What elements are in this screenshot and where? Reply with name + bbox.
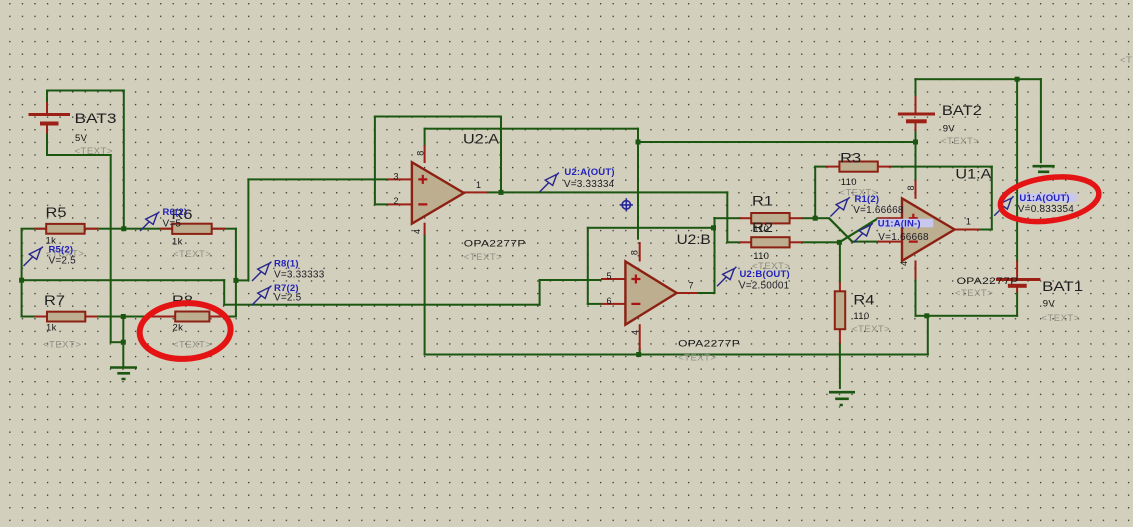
wire U1:A feedback drop vertical: [991, 166, 993, 231]
svg-text:U2:B(OUT): U2:B(OUT): [740, 269, 790, 280]
junction dot R2/R4 node: [837, 240, 842, 245]
svg-text:3: 3: [394, 172, 399, 182]
svg-text:R5(2): R5(2): [49, 245, 74, 256]
wire V+ branch rail y142 horizontal: [637, 141, 917, 143]
svg-text:<TEXT>: <TEXT>: [852, 324, 890, 335]
svg-text:BAT1: BAT1: [1042, 279, 1083, 294]
probe arrow R7(2): [252, 286, 271, 305]
wire BAT3 bottom horizontal: [46, 154, 112, 156]
wire U2:A feedback right vertical: [500, 116, 502, 194]
resistor R5 leads: [35, 228, 48, 230]
wire R3 right feedback horizontal: [890, 166, 993, 168]
svg-text:V=2.5: V=2.5: [274, 293, 302, 304]
junction dot top rail BAT1: [1015, 77, 1020, 82]
wire BAT3 jog to ground net: [110, 341, 125, 343]
svg-text:8: 8: [906, 185, 916, 190]
wire BAT1 negative lead vertical: [1016, 291, 1018, 317]
wire bottom rail right riser vertical: [927, 315, 929, 356]
svg-text:OPA2277P: OPA2277P: [464, 239, 526, 250]
svg-text:V=1.66668: V=1.66668: [853, 205, 904, 216]
svg-text:V=3.33334: V=3.33334: [564, 179, 615, 190]
op-amp U2:A: [412, 162, 464, 224]
wire U2:B pin6 riser vertical: [587, 227, 589, 305]
battery BAT3: [29, 113, 71, 116]
svg-text:8: 8: [629, 250, 639, 255]
wire R2 right horizontal: [801, 241, 841, 243]
wire R3 left drop vertical: [814, 166, 816, 220]
op-amp U1:A pin stubs: [878, 217, 903, 219]
resistor R3: [839, 162, 877, 172]
svg-text:2: 2: [394, 196, 399, 206]
wire BAT2 positive lead vertical: [915, 78, 917, 97]
svg-text:R7: R7: [44, 293, 65, 308]
svg-text:<TEXT>: <TEXT>: [941, 136, 979, 147]
wire U1:A pin4 drop vertical: [915, 278, 917, 317]
wire left net horizontal y280: [21, 279, 226, 281]
wire V+ rail drop to U2:B pin8 vertical: [637, 128, 639, 240]
wire R6 right to R8 right vertical: [235, 228, 237, 318]
wire ground G1 vertical: [122, 316, 124, 369]
junction dot BAT3 jog: [121, 340, 126, 345]
wire R4 bottom to ground G2 vertical: [839, 342, 841, 389]
svg-text:U1:A(OUT): U1:A(OUT): [1019, 193, 1069, 204]
battery BAT1: [996, 278, 1040, 281]
red highlight ellipse around R8: [138, 301, 232, 361]
probe arrow R1(2): [830, 197, 849, 216]
wire U2:B feedback top horizontal: [587, 227, 716, 229]
wire U2:A output horizontal: [487, 191, 728, 193]
svg-text:R3: R3: [840, 150, 861, 165]
resistor R3 leads: [826, 166, 840, 168]
wire diagonal from R2 node to U1:A pin3: [839, 218, 878, 242]
svg-text:5V: 5V: [75, 133, 88, 144]
wire BAT3 negative lead vertical: [46, 132, 48, 156]
resistor R7 leads: [35, 316, 49, 318]
junction dot R7 row ground: [121, 314, 126, 319]
BAT2 pin stubs: [915, 96, 917, 114]
svg-text:R2: R2: [752, 220, 773, 235]
svg-text:OPA2277P: OPA2277P: [957, 276, 1019, 287]
wire U2:A pin2 stub horizontal: [374, 203, 389, 205]
svg-text:110: 110: [841, 177, 857, 188]
wire U1:A pin2 horizontal: [851, 241, 879, 243]
wire R7 row horizontal: [21, 316, 147, 318]
svg-text:V=2.50001: V=2.50001: [739, 280, 790, 291]
junction dot left column: [19, 278, 24, 283]
svg-text:1k: 1k: [46, 323, 57, 334]
svg-text:V=0.833354: V=0.833354: [1018, 204, 1074, 215]
resistor R6 leads: [160, 228, 174, 230]
wire node stub to pin3 riser: [235, 279, 250, 281]
svg-text:BAT3: BAT3: [75, 111, 117, 126]
wire long net riser x539.6: [539, 279, 541, 306]
resistor R8: [175, 312, 209, 322]
probe arrow R8(1): [252, 262, 271, 281]
wire U2:A feedback top horizontal: [374, 116, 502, 118]
svg-text:U1:A: U1:A: [955, 166, 991, 181]
svg-text:1k: 1k: [172, 237, 183, 248]
BAT3 pin stubs: [46, 102, 48, 115]
svg-text:R1: R1: [752, 194, 773, 209]
svg-text:R1(2): R1(2): [855, 194, 880, 205]
wire BAT3 top horizontal: [46, 90, 125, 92]
wire diag jog before U1:A pin2: [814, 217, 830, 219]
probe arrow U1:A(IN-): [853, 223, 872, 242]
BAT1 pin stubs: [1016, 261, 1018, 280]
wire R5-R6 row horizontal: [21, 228, 237, 230]
wire top rail drop to ground G3 vertical: [1040, 78, 1042, 163]
svg-text:<TEXT>: <TEXT>: [43, 340, 81, 351]
svg-text:R8(1): R8(1): [274, 259, 299, 270]
svg-text:<TEXT>: <TEXT>: [173, 340, 211, 351]
wire long net horizontal y304.7: [223, 304, 540, 306]
svg-text:1: 1: [476, 180, 481, 190]
wire U2:A pin3 horizontal: [247, 178, 388, 180]
origin marker: [620, 198, 633, 211]
probe arrow R5(2): [24, 247, 43, 266]
svg-text:<TEXT>: <TEXT>: [464, 252, 502, 263]
wire R4 top vertical: [839, 241, 841, 283]
resistor R2: [751, 237, 789, 247]
junction dot U2:B pin4 rail: [636, 352, 641, 357]
wire R3 left horizontal: [814, 166, 827, 168]
svg-text:R5: R5: [46, 205, 67, 220]
resistor R4: [835, 291, 845, 329]
svg-text:V=3.33333: V=3.33333: [274, 270, 325, 281]
svg-text:5: 5: [607, 271, 612, 281]
junction dot BAT2 rail: [913, 140, 918, 145]
wire R1 left horizontal: [714, 217, 742, 219]
wire U2:B output horizontal: [697, 292, 715, 294]
svg-text:OPA2277P: OPA2277P: [678, 339, 740, 350]
resistor R5: [46, 224, 84, 234]
svg-text:1: 1: [966, 217, 971, 227]
red highlight ellipse around U1:A(OUT): [998, 171, 1102, 227]
svg-text:<TEXT>: <TEXT>: [75, 146, 113, 157]
wire U1:A pin4 jog horizontal: [915, 315, 929, 317]
junction dot V+ rail branch: [636, 140, 641, 145]
wire U2:B pin5 horizontal: [539, 279, 602, 281]
probe arrow U2:B(OUT): [717, 267, 736, 286]
wire top rail horizontal y79.2: [915, 78, 1042, 80]
annotation U1:A(OUT) highlight: [1019, 194, 1077, 203]
ground G3: [1033, 166, 1055, 177]
wire bottom rail left vertical under U2:A pin4: [424, 234, 426, 356]
svg-text:R4: R4: [853, 293, 875, 308]
svg-text:8: 8: [415, 151, 425, 156]
wire BAT3 bottom drop vertical: [110, 154, 112, 343]
svg-text:V=5: V=5: [163, 219, 182, 230]
junction dot U2:B output node: [711, 225, 716, 230]
wire diagonal to U1:A pin2: [829, 218, 852, 241]
svg-text:<TEXT>: <TEXT>: [1041, 313, 1079, 324]
wire R8 right stub horizontal: [221, 316, 237, 318]
wire left net jog vertical x224: [223, 279, 225, 306]
op-amp U2:B pin stubs: [601, 278, 626, 280]
resistor R4 leads: [839, 282, 841, 293]
svg-text:U2:A: U2:A: [463, 132, 499, 147]
wire V+ rail horizontal y128.7: [424, 128, 639, 130]
wire left column R5-R7 vertical: [21, 228, 23, 318]
svg-text:<TEXT>: <TEXT>: [955, 288, 993, 299]
battery BAT2: [898, 113, 935, 116]
svg-text:4: 4: [412, 229, 422, 234]
resistor R1: [751, 213, 789, 223]
wire BAT3 top-right vertical to R5/R6 row: [123, 90, 125, 229]
annotation U1:A(IN-) highlight: [877, 219, 933, 228]
svg-text:9V: 9V: [943, 124, 956, 135]
wire BAT1 positive lead to top rail vertical: [1016, 78, 1018, 262]
wire U2:A feedback left vertical: [374, 116, 376, 206]
probe arrow U2:A(OUT): [540, 173, 559, 192]
wire BAT1 negative rail horizontal: [927, 315, 1018, 317]
resistor R6: [172, 224, 212, 234]
wire U2:B output riser vertical: [714, 217, 716, 294]
svg-text:9V: 9V: [1043, 298, 1056, 309]
wire U2:A output drop to R2 vertical: [726, 191, 728, 243]
junction dot R1/R3 node: [813, 216, 818, 221]
wire R1 right horizontal: [801, 217, 815, 219]
svg-text:110: 110: [853, 311, 869, 322]
op-amp U2:B: [625, 261, 676, 324]
wire bottom rail horizontal y354.5: [424, 354, 929, 356]
svg-text:4: 4: [899, 261, 909, 266]
svg-text:<TEXT>: <TEXT>: [173, 249, 211, 260]
ground G2: [829, 392, 855, 405]
junction dot R5/R6 row: [121, 226, 126, 231]
svg-text:<TEXT>: <TEXT>: [678, 353, 716, 364]
op-amp U1:A: [902, 198, 955, 261]
svg-text:6: 6: [607, 296, 612, 306]
svg-text:<TEXT>: <TEXT>: [1120, 55, 1133, 66]
wire BAT2 negative to U1:A pin8 vertical: [915, 128, 917, 182]
resistor R8 leads: [146, 316, 177, 318]
svg-text:U2:B: U2:B: [677, 232, 711, 247]
junction dot bottom rail riser: [924, 313, 929, 318]
svg-text:R6(2): R6(2): [163, 207, 188, 218]
svg-text:V=2.5: V=2.5: [49, 256, 77, 267]
svg-text:U1:A(IN-): U1:A(IN-): [878, 218, 921, 229]
junction dot U2:A output: [499, 190, 504, 195]
wire U2:B pin4 lower vertical: [639, 348, 641, 356]
svg-text:7: 7: [689, 280, 694, 290]
wire R2 left horizontal: [726, 241, 741, 243]
probe arrow R6(2): [140, 212, 159, 231]
resistor R7: [47, 312, 85, 322]
wire U2:A pin3 riser vertical: [247, 178, 249, 281]
wire U1:A output horizontal: [979, 229, 993, 231]
svg-text:2k: 2k: [173, 323, 184, 334]
svg-text:BAT2: BAT2: [942, 103, 982, 118]
junction dot R6/R8/pin3 node: [233, 278, 238, 283]
resistor R2 leads: [740, 241, 752, 243]
ground G1: [110, 368, 137, 380]
svg-text:V=1.66668: V=1.66668: [878, 232, 929, 243]
probe arrow U1:A(OUT): [994, 196, 1013, 215]
op-amp U2:A pin stubs: [388, 178, 412, 180]
resistor R1 leads: [740, 217, 752, 219]
wire BAT3 positive lead vertical: [46, 90, 48, 104]
svg-text:4: 4: [630, 330, 640, 335]
wire U2:B pin6 stub horizontal: [587, 303, 602, 305]
svg-text:U2:A(OUT): U2:A(OUT): [564, 167, 614, 178]
wire V+ rail above U2:A pin8 vertical: [424, 128, 426, 147]
